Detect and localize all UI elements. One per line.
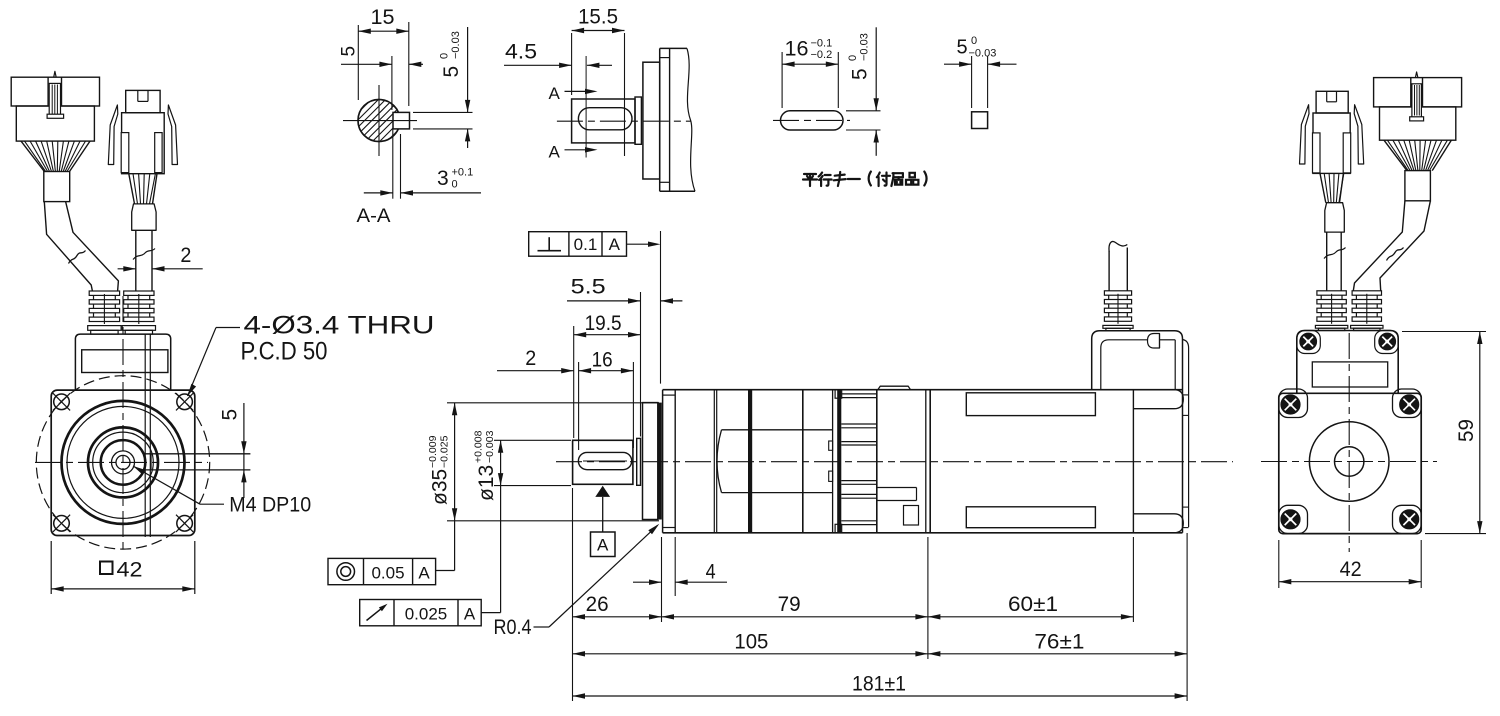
svg-text:181±1: 181±1 (852, 673, 906, 696)
label M4 DP10 with leader (133, 466, 145, 475)
side view: cable strain relief on cap (1104, 291, 1131, 295)
side view: gearhead pilot dia35 (643, 403, 658, 520)
shaft detail: gearhead flange plate (659, 48, 661, 191)
dimension 19.5 (574, 334, 641, 336)
side view: motor flange face (925, 390, 927, 533)
rear view: CN1 boot (1405, 171, 1431, 201)
front view: centerlines (35, 461, 208, 463)
front view: strain relief right (124, 291, 154, 295)
svg-text:A: A (418, 564, 430, 583)
dimension 26 (573, 616, 662, 618)
rear view: small connector CN2 (1316, 91, 1348, 113)
dimension 5 0/-0.03 key width (971, 56, 973, 108)
svg-text:4: 4 (706, 561, 716, 584)
svg-text:M4 DP10: M4 DP10 (229, 493, 311, 516)
section arrows A (565, 90, 593, 92)
dia35 tolerance text (429, 469, 452, 505)
svg-text:16: 16 (592, 349, 613, 372)
rear view: CN1 cable with bend (1353, 201, 1405, 291)
dimension 15 (357, 25, 359, 100)
rear view: cap box (1297, 331, 1398, 394)
dimension 16 (579, 370, 634, 372)
front view: mounting flange square 42mm (51, 390, 195, 535)
svg-text:15: 15 (371, 6, 395, 29)
svg-text:A: A (549, 143, 561, 162)
dimension 5 key width (391, 56, 393, 110)
tolerance frame perpendicularity 0.1 A (529, 232, 627, 257)
front view: strain relief left (89, 291, 119, 295)
svg-text:A: A (549, 84, 561, 103)
svg-text:P.C.D 50: P.C.D 50 (241, 338, 328, 366)
svg-text:5: 5 (339, 46, 360, 57)
tolerance frame circular runout 0.025 A (360, 600, 482, 626)
shaft detail: break line (687, 48, 695, 191)
datum A flag (591, 532, 616, 557)
dimension 5 0/-0.03 key height (846, 110, 881, 112)
front view: CN1 wire fan (21, 141, 44, 171)
parallel key: key end view square (972, 112, 988, 129)
front view: CN1 boot (44, 172, 70, 202)
side view: rear screw boss top (1133, 408, 1174, 410)
extension line gearhead face (660, 231, 662, 384)
svg-text:−0.03: −0.03 (859, 33, 871, 61)
tolerance frame concentricity 0.05 A (328, 558, 436, 584)
extension lines above shaft (573, 326, 575, 438)
side view: rear cap top box (1092, 331, 1183, 533)
dia13 tolerance text (475, 465, 498, 501)
front view: P.C.D 50 dashed circle (36, 376, 209, 549)
side view: gearhead case outline (663, 389, 1183, 391)
side view: adapter serrated section (832, 390, 834, 533)
front view: CN1 cable break squiggle (69, 251, 86, 264)
shaft detail: shaft body (572, 99, 635, 143)
svg-text:19.5: 19.5 (585, 312, 622, 335)
rear view: CN2 cable (1326, 232, 1328, 291)
svg-text:5: 5 (849, 68, 872, 80)
dimension 181+-1 (573, 695, 1188, 697)
svg-text:0: 0 (452, 179, 458, 191)
side view: centerline (556, 461, 1233, 463)
svg-text:ø35: ø35 (429, 469, 452, 505)
dimension 2 (cable) (118, 268, 136, 270)
svg-text:76±1: 76±1 (1034, 631, 1084, 654)
rear view: big connector CN1 (1374, 78, 1462, 107)
parallel key: centerline (773, 119, 850, 121)
svg-text:15.5: 15.5 (578, 6, 618, 29)
rear view: CN1 lock pin (1412, 84, 1422, 118)
dimension square-42 (50, 541, 52, 594)
rear view: strain reliefs (1317, 291, 1346, 295)
dimension 60+-1 (928, 616, 1134, 618)
rear view: CN2 boot (1325, 203, 1345, 232)
svg-text:−0.025: −0.025 (439, 435, 451, 468)
side view: rear screw boss bottom (1133, 513, 1174, 515)
shaft detail: centerline (557, 120, 691, 122)
svg-text:5.5: 5.5 (571, 276, 606, 299)
bottom extension lines (572, 488, 574, 701)
side view: motor rear cap joint (1132, 390, 1134, 533)
dimension 3 +0.1/0 keyway depth (392, 129, 394, 199)
shaft detail: gearhead pilot boss (643, 62, 660, 179)
svg-text:A: A (464, 605, 476, 624)
front view: keyway on shaft end (144, 453, 251, 455)
rear view: CN2 wire fan (1320, 173, 1326, 202)
rear view: motor circles (1309, 422, 1389, 502)
svg-text:42: 42 (1340, 558, 1362, 581)
svg-text:A: A (609, 235, 621, 254)
dimension 105 (573, 653, 928, 655)
svg-text:60±1: 60±1 (1008, 593, 1058, 616)
svg-text:ø13: ø13 (475, 465, 498, 501)
front view: CN2 latch wings (108, 105, 118, 165)
svg-text:−0.003: −0.003 (484, 430, 496, 463)
svg-text:4.5: 4.5 (505, 41, 537, 64)
rear view: cap label recess (1312, 362, 1387, 387)
dimension 5 (keyway offset) (243, 403, 245, 498)
svg-text:A-A: A-A (357, 206, 391, 227)
side view: motor nameplate top (966, 393, 1095, 416)
svg-text:0: 0 (439, 53, 451, 59)
front view: CN1 center lock pin (49, 83, 60, 117)
side view: cap plug detail (1148, 334, 1160, 349)
svg-text:0.025: 0.025 (405, 605, 448, 624)
side view: motor nameplate bottom (966, 507, 1095, 528)
svg-text:79: 79 (778, 593, 801, 616)
front view: CN2 cable break squiggle (133, 249, 155, 260)
dimension 79 (662, 616, 928, 618)
front view: housing label recess (82, 350, 168, 373)
svg-text:0: 0 (847, 55, 859, 61)
svg-text:5: 5 (219, 409, 242, 421)
svg-text:59: 59 (1455, 419, 1478, 442)
svg-text:−0.03: −0.03 (969, 48, 997, 60)
shaft detail: gearhead shoulder ring (635, 97, 641, 144)
svg-text:+0.008: +0.008 (473, 430, 485, 463)
dimension 76+-1 (928, 653, 1187, 655)
side view: gearhead barrel section (722, 429, 833, 431)
front view: CN2 straight cable (135, 230, 137, 291)
svg-text:−0.2: −0.2 (811, 49, 833, 61)
dimension 42 (1278, 540, 1280, 588)
front view: CN2 boot (132, 204, 156, 230)
front view: mounting holes 4x dia3.4 with cross marks (54, 394, 70, 410)
parallel key: key 16mm side view (781, 111, 844, 130)
side view: cable tube (1108, 251, 1110, 291)
shaft detail: keyway slot (578, 108, 632, 130)
A-A section: key 5x5 in keyway (393, 112, 410, 128)
rear view: CN2 latch wings (1300, 105, 1310, 164)
svg-text:3: 3 (437, 167, 449, 190)
dimension 59 (1402, 331, 1486, 333)
dimension 4.5 (504, 64, 572, 66)
svg-text:−0.009: −0.009 (427, 435, 439, 468)
side view: gearhead stage line (713, 390, 715, 533)
svg-text:5: 5 (440, 66, 463, 78)
svg-text:0: 0 (971, 35, 977, 47)
dimension dia35 extension lines (447, 402, 659, 404)
dimension 16 -0.1/-0.2 (781, 52, 783, 108)
svg-text:26: 26 (586, 593, 609, 616)
svg-text:42: 42 (117, 559, 143, 582)
svg-text:+0.1: +0.1 (452, 167, 474, 179)
label 4-dia3.4 THRU P.C.D 50 with leader (188, 384, 197, 396)
leader to concentricity frame (436, 570, 455, 572)
svg-text:2: 2 (525, 347, 536, 370)
dimension 15.5 (571, 33, 573, 95)
side view: flange column details (877, 487, 917, 489)
side view: top tab plate (878, 386, 911, 390)
side view: shaft keyway slot (578, 452, 631, 469)
rear view: main flange square (1279, 393, 1421, 533)
front view: CN2 wire fan (129, 174, 135, 204)
label: parallel key (accessory) japanese (803, 172, 927, 187)
side view: gearhead rear line (802, 390, 804, 533)
svg-text:16: 16 (785, 38, 809, 61)
dimension 5.5 (567, 300, 641, 302)
svg-text:0.05: 0.05 (371, 564, 404, 583)
front view: small connector CN2 housing (126, 90, 160, 112)
svg-text:R0.4: R0.4 (494, 616, 532, 639)
front view: CN1 cable with bend (44, 202, 92, 291)
svg-text:−0.1: −0.1 (811, 38, 833, 50)
svg-text:0.1: 0.1 (574, 235, 598, 254)
side view: rear outer wall (1183, 340, 1189, 528)
front view: pilot and bearing circles (62, 401, 185, 524)
svg-text:105: 105 (734, 631, 768, 654)
dimension dia13 extension lines (494, 439, 571, 441)
svg-text:4-Ø3.4 THRU: 4-Ø3.4 THRU (244, 312, 435, 340)
side view: gearhead thick ring (748, 390, 752, 533)
shaft detail: section cut line A-A (585, 56, 587, 158)
svg-text:2: 2 (180, 244, 191, 267)
front view: connector housing block on motor (75, 334, 170, 390)
svg-text:A: A (597, 536, 609, 555)
dimension 2 (497, 370, 574, 372)
rear view: corner bosses and screws (1279, 389, 1308, 418)
side view: shaft shoulder ring (637, 438, 641, 485)
rear view: cap corner screws (1297, 331, 1321, 354)
dimension 5 0/-0.03 key height (413, 111, 473, 113)
svg-text:−0.03: −0.03 (450, 31, 462, 59)
svg-text:5: 5 (957, 37, 968, 59)
rear view: CN1 wire fan (1384, 140, 1407, 170)
A-A section: centerlines (378, 85, 380, 156)
front view: big connector CN1 housing (11, 77, 99, 106)
side view: gearhead front face thick band (658, 403, 662, 520)
side view: output shaft dia13 (573, 440, 633, 484)
rear view: centerlines (1261, 461, 1437, 463)
front view: lead wires through body (144, 334, 146, 537)
dimension 4 (661, 537, 663, 622)
